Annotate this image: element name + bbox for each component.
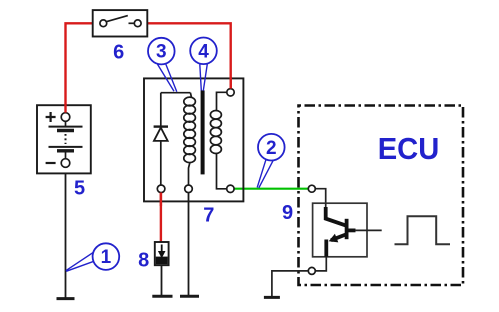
- ground battery: [57, 297, 75, 300]
- svg-text:1: 1: [101, 247, 112, 268]
- wire red switch to relay terminal: [147, 23, 230, 88]
- wire ECU input: [315, 189, 325, 204]
- ECU terminal lower: [308, 267, 315, 274]
- ground relay coil: [180, 295, 199, 298]
- callout circle 4: [190, 38, 217, 91]
- wire red out of relay box bottom: [160, 193, 162, 207]
- svg-text:ECU: ECU: [378, 132, 440, 166]
- relay terminal bottom-middle: [185, 185, 193, 193]
- ECU terminal upper: [308, 185, 315, 192]
- wire red into relay box top: [229, 77, 231, 89]
- component 8 (actuator): [155, 242, 169, 265]
- svg-text:6: 6: [113, 41, 124, 63]
- diode VD: [154, 127, 168, 141]
- wire diode branch lower: [160, 141, 162, 185]
- relay core bar: [201, 90, 205, 174]
- wire battery to ground: [65, 167, 67, 298]
- wire component 8 to ground: [161, 265, 163, 295]
- wire red into battery box: [64, 104, 66, 113]
- transistor Q base lead: [348, 228, 356, 232]
- svg-text:8: 8: [138, 250, 149, 272]
- svg-text:2: 2: [266, 138, 277, 159]
- wire red battery+ to switch: [66, 23, 93, 112]
- wire relay internal top: [161, 92, 191, 94]
- relay terminal top-right: [227, 89, 234, 96]
- relay coil secondary: [217, 92, 227, 111]
- wire lower terminal to ground: [272, 271, 308, 296]
- callout circle 1: [66, 243, 119, 271]
- transistor Q emitter: [331, 235, 346, 241]
- battery 5: [37, 105, 91, 173]
- svg-text:7: 7: [203, 204, 214, 226]
- callout circle 2: [257, 134, 284, 188]
- ground ECU: [264, 296, 280, 299]
- wire emitter to lower terminal: [315, 257, 326, 271]
- relay terminal bottom-left: [157, 185, 165, 193]
- transistor Q collector: [325, 204, 327, 209]
- transistor Q base bar: [345, 219, 349, 239]
- svg-text:4: 4: [198, 41, 209, 62]
- switch S 6: [93, 10, 148, 36]
- callout circle 3: [148, 38, 177, 92]
- relay coil primary: [190, 93, 191, 98]
- wire relay coil to ground: [188, 193, 190, 296]
- ECU dash-dot box: [299, 106, 464, 286]
- transistor box U: [313, 203, 367, 257]
- wire diode branch upper: [160, 93, 162, 126]
- relay box 7: [144, 78, 243, 201]
- svg-text:3: 3: [156, 42, 167, 63]
- svg-text:9: 9: [282, 202, 293, 224]
- svg-text:5: 5: [74, 177, 85, 199]
- ground component 8: [152, 295, 172, 298]
- wire green relay to ECU: [234, 188, 308, 190]
- relay terminal bottom-right: [227, 185, 234, 192]
- square wave pulse: [395, 216, 451, 244]
- wire red relay to component 8: [160, 193, 162, 243]
